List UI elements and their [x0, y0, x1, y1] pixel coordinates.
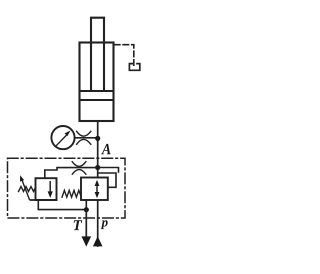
relief valve spring [19, 187, 36, 192]
gauge needle [57, 136, 66, 146]
wire: gauge to node A [75, 137, 97, 139]
valve V2 spring [62, 190, 81, 197]
node A junction dot [95, 136, 100, 141]
drain pilot line (dashed) [115, 45, 134, 67]
wire: T port line [85, 211, 87, 237]
orifice R2 on branch [72, 162, 86, 167]
node B junction dot (branch) [95, 165, 100, 170]
valve V2 double flow arrow [96, 183, 98, 195]
back-pressure valve V2 body [81, 178, 108, 201]
relief valve adjust arrow [22, 180, 30, 200]
T port label [74, 220, 83, 230]
T port arrowhead [82, 236, 92, 246]
relief valve V1 body [36, 178, 57, 200]
junction dot tank rail [84, 207, 89, 212]
relief valve bottom ledge [31, 199, 57, 201]
wire: branch to relief valve [45, 168, 96, 178]
orifice R1 on gauge line [77, 131, 91, 136]
pressure gauge PG [51, 126, 74, 149]
wire: relief valve outlet to tank rail [38, 200, 85, 210]
cylinder piston [80, 90, 114, 92]
wire: valve V2 to tank rail [85, 200, 87, 208]
pilot loop upper wire [99, 168, 119, 173]
wire: P port line [97, 200, 99, 246]
relief valve flow arrow [49, 182, 51, 192]
wire: node A into manifold [97, 158, 99, 178]
cylinder C1 body [80, 43, 114, 122]
wire: cylinder to node A [97, 121, 99, 158]
P port label [101, 220, 108, 229]
node A label [101, 144, 110, 154]
P port arrowhead [93, 236, 103, 246]
enclosure box (dash-dot) [8, 158, 126, 218]
cylinder piston rod [91, 18, 104, 91]
tank reservoir symbol [129, 64, 139, 71]
pilot loop lower wire [99, 173, 117, 187]
